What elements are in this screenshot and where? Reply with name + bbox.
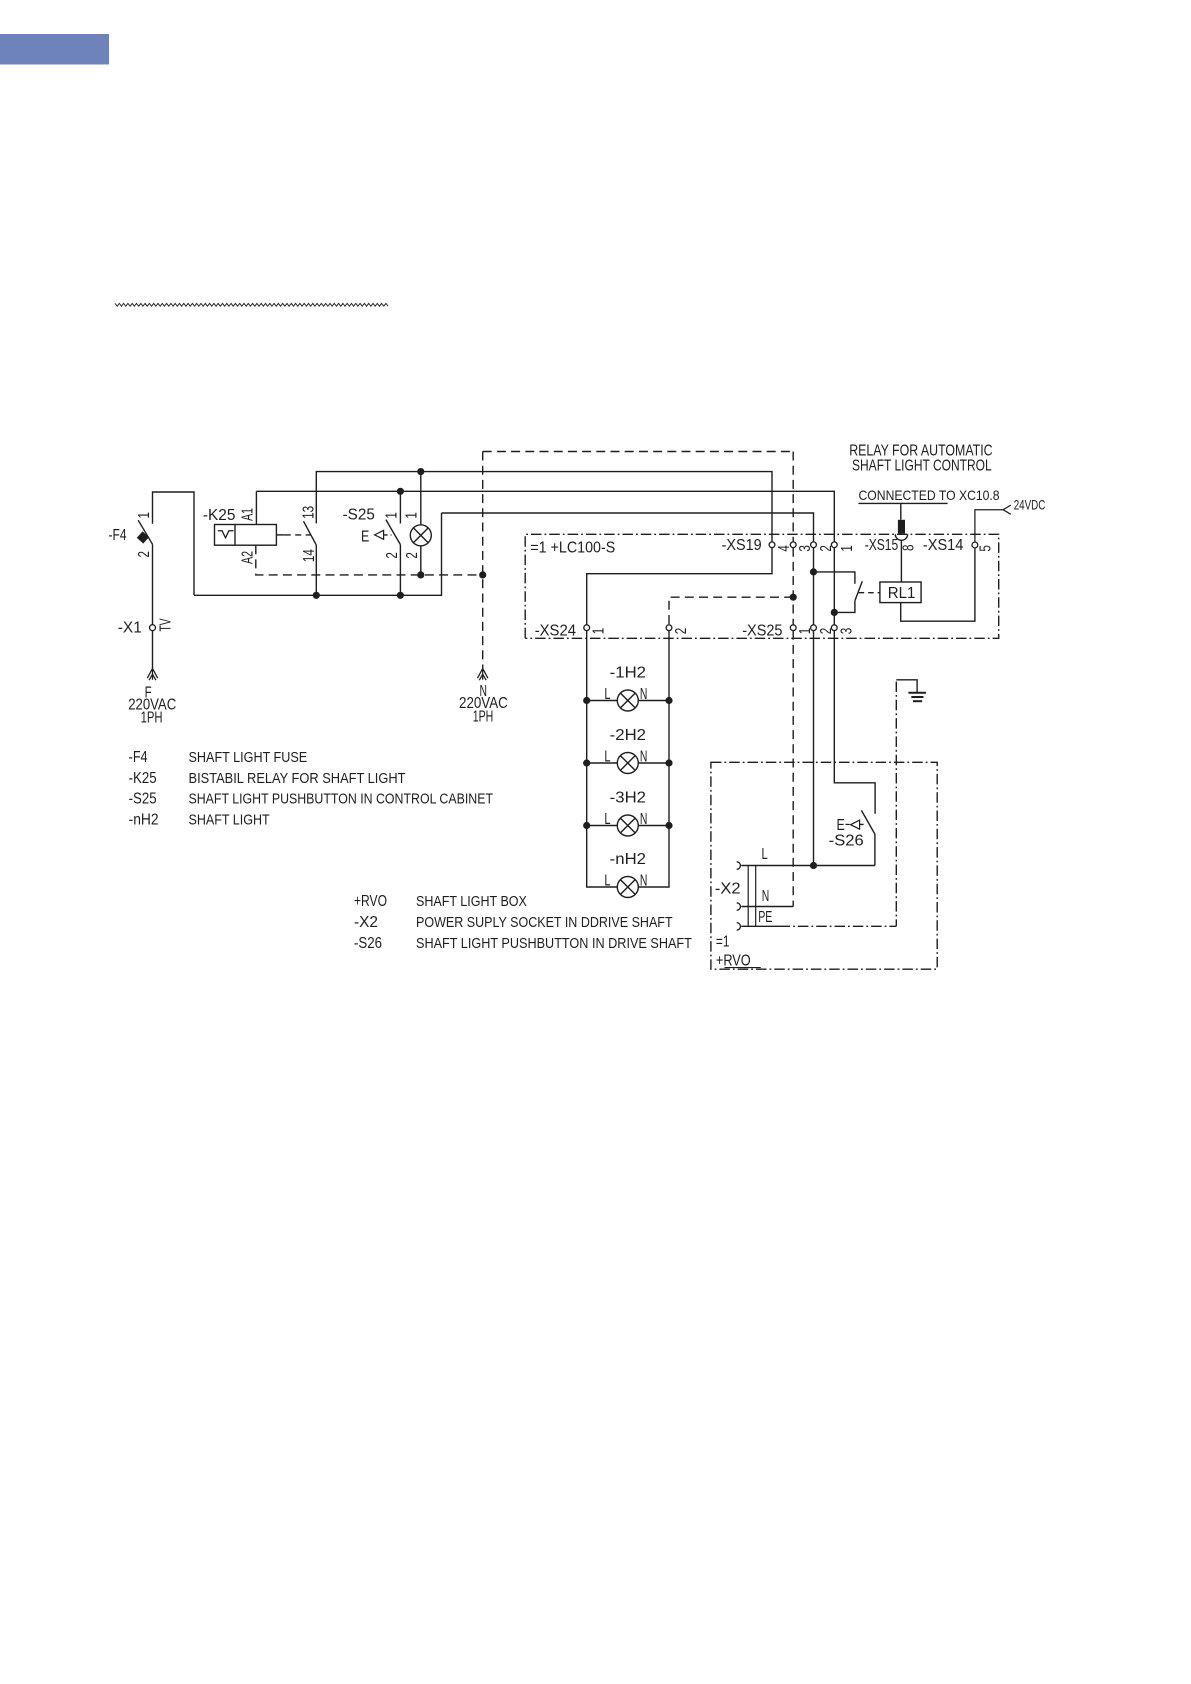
wire X1 to F arrow <box>152 631 154 669</box>
junction dot dashed cross <box>479 571 486 578</box>
terminal XS24 pin2 <box>666 625 672 631</box>
mechanical link contact to RL1 <box>859 592 880 594</box>
contact 13-14 blade <box>304 521 317 545</box>
svg-text:2: 2 <box>673 628 690 635</box>
terminal XS24 pin1 <box>584 625 590 631</box>
svg-text:=1 +LC100-S: =1 +LC100-S <box>530 540 615 557</box>
wire XS25 pin3 to S26 <box>834 631 875 814</box>
wire XS19 pin1 down to XS25 pin3 <box>833 548 835 625</box>
junction dot L <box>810 862 817 869</box>
terminal XS19 pin3 <box>790 542 796 548</box>
svg-text:+RVO: +RVO <box>716 952 751 969</box>
wire under note to XS15 <box>859 503 948 519</box>
pushbutton -S26 blade <box>861 810 875 834</box>
wire left lamp rail <box>587 631 618 887</box>
junction dot bus-S25 <box>397 592 404 599</box>
mechanical link K25 to contact 13-14 <box>276 534 284 536</box>
wire A2 dashed to N dashed bus <box>256 545 483 575</box>
svg-text:-S25: -S25 <box>129 791 157 808</box>
wire A1 to K25 coil <box>255 491 257 524</box>
wire XS15 to RL1 coil <box>900 540 902 582</box>
junction dots lamp -2H2 <box>583 759 590 766</box>
svg-text:=1: =1 <box>716 934 730 951</box>
terminal -X1 <box>150 625 156 631</box>
socket -X2 contact L <box>737 862 741 870</box>
wire F4 top to line corner <box>153 492 195 595</box>
svg-text:L: L <box>604 872 610 889</box>
terminal XS14 pin5 <box>972 542 978 548</box>
underline of +RVO <box>725 967 761 969</box>
svg-text:-F4: -F4 <box>109 527 127 544</box>
junction dot bus-contact14 <box>313 592 320 599</box>
separator wavy line <box>115 303 388 306</box>
pushbutton -S25 blade <box>386 520 401 545</box>
terminal XS25 pin2 <box>811 625 817 631</box>
junction dot neutral node <box>790 594 797 601</box>
earth bonding line <box>895 682 897 927</box>
svg-text:-XS19: -XS19 <box>722 537 762 554</box>
svg-text:-3H2: -3H2 <box>610 789 646 806</box>
svg-text:L: L <box>604 748 610 765</box>
svg-text:1: 1 <box>839 545 856 552</box>
svg-text:-S26: -S26 <box>829 833 864 850</box>
svg-text:RL1: RL1 <box>888 585 916 602</box>
wire bottom bus <box>194 513 442 595</box>
lamp -nH2 <box>617 877 638 898</box>
svg-text:-X2: -X2 <box>715 880 741 897</box>
wire S25 top <box>399 491 401 523</box>
svg-text:L: L <box>604 811 610 828</box>
wire line2 A1 feed <box>256 491 834 542</box>
svg-text:1: 1 <box>384 512 401 519</box>
dashed box left edge / N feed <box>482 452 484 669</box>
svg-text:1: 1 <box>136 512 153 519</box>
wire lamp -3H2 connections <box>587 825 669 827</box>
wire PE <box>741 925 779 927</box>
blue header bar <box>0 34 109 65</box>
wire branch to RL1 contact top <box>814 572 855 584</box>
wire S25 bottom <box>399 545 401 596</box>
svg-text:2: 2 <box>404 552 421 559</box>
svg-text:N: N <box>640 811 648 828</box>
wire XS19 pin4 to XS24 pin1 <box>587 548 772 625</box>
svg-text:PE: PE <box>758 909 772 926</box>
wire lamp top to line1 <box>420 472 422 525</box>
junction dot RL1 contact bottom branch <box>831 609 838 616</box>
terminal XS25 pin1 <box>790 625 796 631</box>
wire XS19 pin2 down to XS25 pin2 <box>813 548 815 625</box>
enclosure box =1 +LC100-S <box>525 534 999 638</box>
junction dots lamp -1H2 <box>583 697 590 704</box>
junction dot line1-lamp <box>417 468 424 475</box>
panel lamp <box>410 525 431 546</box>
feed arrow F <box>147 668 157 680</box>
lamp -2H2 <box>617 753 638 774</box>
junction dot line2-S25 <box>397 488 404 495</box>
wire F4 to X1 <box>152 544 154 624</box>
svg-text:1PH: 1PH <box>473 708 494 725</box>
svg-text:-nH2: -nH2 <box>610 851 646 868</box>
junction dots lamp -3H2 <box>583 822 590 829</box>
svg-text:-XS25: -XS25 <box>742 622 782 639</box>
svg-text:-S25: -S25 <box>343 507 375 524</box>
wire N <box>741 906 793 908</box>
svg-text:3: 3 <box>839 628 856 635</box>
wire lamp bottom to dashed bus <box>420 546 422 575</box>
wire contact14 bottom <box>315 545 317 595</box>
svg-text:E: E <box>361 528 369 545</box>
svg-text:A2: A2 <box>240 551 257 564</box>
wire RL1 bottom to XS14 pin5 <box>901 548 975 621</box>
wire lamp -2H2 connections <box>587 762 669 764</box>
svg-text:1: 1 <box>404 512 421 519</box>
relay coil -K25 <box>215 525 277 546</box>
svg-text:2: 2 <box>136 551 153 558</box>
ground symbol <box>896 680 917 693</box>
svg-text:N: N <box>640 872 648 889</box>
svg-text:N: N <box>640 748 648 765</box>
wire branch to RL1 contact bottom <box>834 601 855 613</box>
connector -X2 body bars <box>748 866 756 927</box>
svg-text:N: N <box>640 686 648 703</box>
svg-text:-X2: -X2 <box>354 914 378 931</box>
svg-text:-K25: -K25 <box>203 507 236 524</box>
dashed wire XS19 pin3 to node <box>792 548 794 625</box>
svg-text:L: L <box>762 846 768 863</box>
svg-text:-XS24: -XS24 <box>535 622 576 639</box>
wire lamp -1H2 connections <box>587 700 669 702</box>
svg-text:-1H2: -1H2 <box>610 664 646 681</box>
svg-text:14: 14 <box>301 549 318 562</box>
socket -X2 contact PE <box>737 923 741 931</box>
svg-text:SHAFT LIGHT PUSHBUTTON IN CONT: SHAFT LIGHT PUSHBUTTON IN CONTROL CABINE… <box>189 791 494 808</box>
enclosure box +RVO <box>711 762 937 969</box>
svg-text:L: L <box>604 686 610 703</box>
svg-text:SHAFT LIGHT PUSHBUTTON IN DRIV: SHAFT LIGHT PUSHBUTTON IN DRIVE SHAFT <box>416 935 692 952</box>
junction dot RL1 contact top branch <box>810 568 817 575</box>
svg-text:-XS15: -XS15 <box>865 537 899 554</box>
svg-text:-XS14: -XS14 <box>923 537 964 554</box>
terminal XS19 pin1 <box>831 542 837 548</box>
lamp -3H2 <box>617 815 638 836</box>
svg-text:-S26: -S26 <box>354 935 382 952</box>
svg-text:SHAFT LIGHT FUSE: SHAFT LIGHT FUSE <box>189 749 308 766</box>
svg-text:TV: TV <box>157 618 174 631</box>
svg-text:A1: A1 <box>240 508 257 521</box>
terminal XS19 pin4 <box>769 542 775 548</box>
svg-text:CONNECTED TO XC10.8: CONNECTED TO XC10.8 <box>859 487 1000 503</box>
svg-text:E: E <box>837 817 845 834</box>
wire XS25 pin2 down to L dot <box>813 631 815 866</box>
svg-text:+RVO: +RVO <box>354 893 387 910</box>
svg-text:13: 13 <box>300 506 317 519</box>
svg-text:SHAFT LIGHT BOX: SHAFT LIGHT BOX <box>416 893 527 910</box>
wire line3 to XS19 pin2 <box>442 513 814 542</box>
svg-text:BISTABIL RELAY FOR SHAFT LIGHT: BISTABIL RELAY FOR SHAFT LIGHT <box>189 770 406 787</box>
wire right lamp rail <box>638 631 669 887</box>
svg-text:2: 2 <box>384 552 401 559</box>
dashed box top edge <box>483 451 794 453</box>
dashed wire XS25 pin1 to X2 N <box>792 631 794 907</box>
fuse-switch -F4 <box>138 520 152 544</box>
svg-text:SHAFT LIGHT: SHAFT LIGHT <box>189 811 270 828</box>
svg-text:POWER SUPLY SOCKET IN DDRIVE S: POWER SUPLY SOCKET IN DDRIVE SHAFT <box>416 914 673 931</box>
svg-text:-nH2: -nH2 <box>129 811 159 828</box>
feed arrow N <box>478 668 488 680</box>
svg-text:1PH: 1PH <box>141 709 163 726</box>
svg-text:SHAFT LIGHT CONTROL: SHAFT LIGHT CONTROL <box>852 458 992 475</box>
dashed box right edge to XS19 pin3 <box>792 452 794 542</box>
terminal XS25 pin3 <box>831 625 837 631</box>
svg-text:24VDC: 24VDC <box>1014 497 1046 513</box>
svg-text:1: 1 <box>591 628 608 635</box>
terminal XS19 pin2 <box>811 542 817 548</box>
svg-text:-X1: -X1 <box>118 620 142 637</box>
svg-text:-2H2: -2H2 <box>610 727 646 744</box>
RL1 contact blade <box>855 581 862 601</box>
wire L <box>741 865 875 867</box>
dashed wire node to XS24 pin2 <box>669 597 793 625</box>
svg-text:N: N <box>762 888 770 905</box>
lamp -1H2 <box>617 690 638 711</box>
junction dot dashed bus-lamp <box>417 571 424 578</box>
socket -X2 contact N <box>737 903 741 911</box>
relay RL1 <box>880 582 921 603</box>
svg-text:8: 8 <box>900 544 917 551</box>
svg-text:5: 5 <box>978 545 995 552</box>
wire S26 bottom to L <box>874 834 876 865</box>
wire contact13 top to line1 <box>316 472 772 542</box>
svg-text:-K25: -K25 <box>129 770 157 787</box>
svg-text:-F4: -F4 <box>129 749 148 766</box>
wire 24VDC supply arrow <box>975 505 1011 542</box>
fuse plug XS15 <box>898 520 905 534</box>
